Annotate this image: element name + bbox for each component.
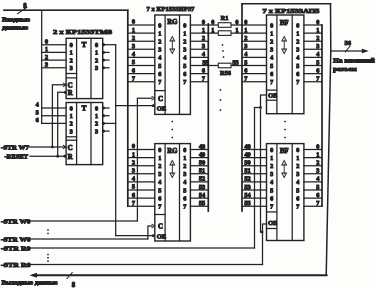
svg-text:1: 1 bbox=[70, 50, 73, 57]
svg-text:2: 2 bbox=[296, 39, 299, 46]
svg-text:4: 4 bbox=[36, 102, 40, 109]
svg-text:1: 1 bbox=[202, 27, 205, 34]
wire resistor row 5 wire 55 between rails bbox=[208, 59, 242, 66]
svg-text:RG: RG bbox=[167, 19, 178, 26]
svg-text:2: 2 bbox=[158, 39, 161, 46]
bus width tick 8 on input bus bbox=[18, 3, 28, 14]
svg-text:7: 7 bbox=[244, 76, 247, 83]
svg-text:5: 5 bbox=[296, 63, 299, 70]
svg-text:T: T bbox=[82, 41, 87, 49]
svg-text:3: 3 bbox=[183, 171, 186, 178]
svg-text:0: 0 bbox=[183, 147, 186, 154]
svg-text:5: 5 bbox=[36, 109, 39, 116]
svg-text:3: 3 bbox=[316, 168, 319, 175]
svg-text:7: 7 bbox=[158, 79, 161, 86]
bidirectional arrow symbol in lower BF bbox=[282, 161, 287, 178]
svg-text:55: 55 bbox=[199, 200, 205, 207]
svg-text:-RESET: -RESET bbox=[5, 154, 29, 161]
svg-text:R: R bbox=[68, 153, 74, 161]
ellipsis dots between STR W0 and W6 bbox=[47, 229, 49, 234]
svg-text:4: 4 bbox=[183, 55, 186, 62]
svg-text:55: 55 bbox=[232, 59, 238, 66]
svg-text:1: 1 bbox=[296, 30, 299, 37]
junction OE branch upper bbox=[152, 104, 155, 107]
svg-text:RG: RG bbox=[167, 148, 178, 155]
svg-text:2: 2 bbox=[132, 35, 135, 42]
svg-text:0: 0 bbox=[132, 143, 135, 150]
ellipsis dots resistors R3-R55 bbox=[220, 44, 225, 111]
svg-text:6: 6 bbox=[296, 195, 299, 202]
svg-text:5: 5 bbox=[270, 63, 273, 70]
junction RESET branch bbox=[56, 91, 66, 158]
svg-text:Выходные данные: Выходные данные bbox=[2, 279, 58, 286]
svg-text:2: 2 bbox=[158, 163, 161, 170]
svg-text:1: 1 bbox=[244, 27, 247, 34]
ellipsis dots more buffers between AP5 blocks bbox=[284, 121, 286, 139]
svg-text:5: 5 bbox=[296, 187, 299, 194]
svg-text:Входные: Входные bbox=[2, 17, 30, 24]
wire taps rail2 to lower buffer AP5 inputs 48-55 bbox=[242, 143, 267, 207]
svg-text:5: 5 bbox=[183, 63, 186, 70]
wire STR W6 riser to lower register C pin bbox=[148, 226, 152, 239]
svg-text:4: 4 bbox=[270, 179, 273, 186]
svg-text:6: 6 bbox=[158, 71, 161, 78]
wire stubs TM8 lower outputs bbox=[103, 108, 109, 131]
svg-text:7: 7 bbox=[183, 204, 186, 211]
wire resistor row 0 between rails bbox=[208, 19, 242, 26]
svg-text:48: 48 bbox=[199, 143, 205, 150]
svg-text:3: 3 bbox=[132, 168, 135, 175]
svg-text:49: 49 bbox=[244, 151, 250, 158]
svg-text:0: 0 bbox=[211, 19, 214, 26]
wire input bus vertical drop to TM8 inputs bbox=[41, 10, 43, 123]
pin OE of lower register bbox=[157, 234, 166, 241]
svg-text:3: 3 bbox=[158, 171, 161, 178]
svg-text:6: 6 bbox=[296, 71, 299, 78]
junction OE branch lower bbox=[152, 234, 155, 237]
svg-text:1: 1 bbox=[132, 27, 135, 34]
svg-text:данные: данные bbox=[2, 25, 28, 32]
svg-text:1: 1 bbox=[235, 27, 238, 34]
wire cable frame top edge bbox=[242, 3, 331, 5]
svg-text:1: 1 bbox=[316, 27, 319, 34]
svg-text:1: 1 bbox=[158, 30, 161, 37]
svg-text:4: 4 bbox=[158, 55, 161, 62]
svg-text:52: 52 bbox=[244, 176, 250, 183]
svg-text:-STR R0: -STR R0 bbox=[1, 245, 31, 252]
svg-text:0: 0 bbox=[95, 105, 98, 112]
svg-text:OE: OE bbox=[157, 106, 166, 113]
svg-text:7: 7 bbox=[296, 79, 299, 86]
pin C of upper TM8 with dynamic indicator bbox=[63, 82, 73, 90]
svg-text:1: 1 bbox=[296, 155, 299, 162]
svg-text:56: 56 bbox=[345, 40, 352, 47]
svg-text:2: 2 bbox=[244, 35, 247, 42]
svg-text:2: 2 bbox=[296, 163, 299, 170]
svg-text:7: 7 bbox=[183, 79, 186, 86]
svg-text:5: 5 bbox=[316, 184, 319, 191]
svg-text:-STR W0: -STR W0 bbox=[1, 218, 31, 225]
svg-text:0: 0 bbox=[95, 42, 98, 49]
svg-text:C: C bbox=[68, 144, 73, 152]
wire OE branch to lower register OE pin bbox=[116, 235, 155, 237]
pin C of lower TM8 with dynamic indicator bbox=[63, 144, 73, 152]
svg-text:3: 3 bbox=[183, 47, 186, 54]
junction STR W7 branch bbox=[51, 146, 54, 149]
svg-text:53: 53 bbox=[244, 184, 250, 191]
svg-text:BF: BF bbox=[280, 20, 289, 27]
svg-text:1: 1 bbox=[183, 155, 186, 162]
svg-text:53: 53 bbox=[199, 184, 205, 191]
junction STR R0 at OE tie bbox=[259, 106, 262, 109]
svg-text:5: 5 bbox=[158, 187, 161, 194]
svg-text:0: 0 bbox=[316, 143, 319, 150]
pin OE of upper buffer bbox=[268, 93, 277, 100]
svg-text:2: 2 bbox=[316, 160, 319, 167]
svg-text:C: C bbox=[158, 95, 163, 103]
label 7 x KR1533IR37 bbox=[147, 6, 196, 13]
wire to external connector with arrow bbox=[331, 49, 369, 54]
buffer DD4 upper KR1533AP5 body bbox=[267, 15, 304, 114]
svg-text:7 х КР1533АП5: 7 х КР1533АП5 bbox=[263, 8, 321, 15]
svg-text:7: 7 bbox=[202, 76, 205, 83]
svg-text:0: 0 bbox=[270, 147, 273, 154]
svg-text:3: 3 bbox=[296, 47, 299, 54]
svg-text:1: 1 bbox=[95, 113, 98, 120]
svg-text:7: 7 bbox=[270, 204, 273, 211]
ellipsis dots more registers between IR37 blocks bbox=[171, 121, 173, 139]
svg-text:R56: R56 bbox=[220, 70, 232, 77]
svg-text:На внешний: На внешний bbox=[333, 58, 375, 65]
resistor R2 bbox=[218, 31, 231, 36]
svg-text:-STR R6: -STR R6 bbox=[1, 262, 31, 269]
svg-text:2: 2 bbox=[70, 57, 73, 64]
signal -STR R0 wire to buffers OE bbox=[1, 245, 255, 252]
wire OE tie vertical between buffer groups bbox=[261, 108, 263, 233]
node output rail 56-wire vertical bbox=[321, 25, 323, 206]
svg-text:1: 1 bbox=[95, 50, 98, 57]
svg-text:1: 1 bbox=[270, 30, 273, 37]
junction STR R6 at OE tie bbox=[261, 231, 264, 234]
svg-text:7: 7 bbox=[132, 200, 135, 207]
wire cable frame right vertical bbox=[326, 4, 331, 276]
resistor R56 bbox=[218, 63, 232, 77]
svg-text:R1: R1 bbox=[221, 15, 229, 22]
svg-text:6: 6 bbox=[270, 71, 273, 78]
wire bus taps to TM8 lower inputs with bit numbers 4-6 bbox=[36, 102, 66, 124]
node output-data bus (8-bit) bottom wire with left arrow bbox=[30, 273, 327, 278]
svg-text:1: 1 bbox=[183, 30, 186, 37]
svg-text:-STR W7: -STR W7 bbox=[1, 144, 30, 151]
svg-text:3: 3 bbox=[296, 171, 299, 178]
wire bus taps to upper register IR37 inputs bits 0-7 bbox=[128, 19, 155, 83]
svg-text:3: 3 bbox=[202, 43, 205, 50]
junction dots on TM8 upper outputs bbox=[102, 43, 105, 69]
svg-text:3: 3 bbox=[270, 171, 273, 178]
svg-text:5: 5 bbox=[132, 184, 135, 191]
pin OE of lower buffer bbox=[268, 220, 277, 227]
svg-text:OE: OE bbox=[268, 220, 277, 227]
svg-text:-STR W6: -STR W6 bbox=[1, 236, 31, 243]
signal -STR W6 wire to lower register C bbox=[1, 236, 148, 243]
svg-text:8: 8 bbox=[72, 282, 76, 289]
svg-text:6: 6 bbox=[183, 195, 186, 202]
signal -RESET wire to R pins of TM8 bbox=[5, 154, 67, 161]
svg-text:5: 5 bbox=[270, 187, 273, 194]
svg-text:2: 2 bbox=[95, 121, 98, 128]
buffer DD5 lower KR1533AP5 body bbox=[267, 144, 304, 241]
wire TM8 upper output Q0 to OE net vertical bbox=[103, 44, 116, 46]
label Na vneshniy razyem bbox=[333, 58, 375, 73]
wire branch STR W7 up to upper TM8 C pin bbox=[52, 85, 66, 147]
svg-text:3: 3 bbox=[45, 62, 48, 69]
svg-text:OE: OE bbox=[157, 234, 166, 241]
wire input bus vertical rail to register inputs bbox=[127, 10, 129, 206]
node input-data bus (8-bit) top horizontal wire bbox=[4, 9, 128, 11]
signal -STR R6 wire to lower buffer OE bbox=[1, 262, 263, 269]
svg-text:0: 0 bbox=[235, 19, 238, 26]
wire upper buffer outputs to output rail with bit numbers bbox=[304, 19, 322, 83]
svg-text:3: 3 bbox=[270, 47, 273, 54]
wire TM8 lower output Q2 to OE net vertical bbox=[103, 122, 116, 124]
svg-text:51: 51 bbox=[244, 168, 250, 175]
svg-text:2 х КР1533ТМ8: 2 х КР1533ТМ8 bbox=[53, 29, 113, 36]
svg-text:7 х КР1533ИР37: 7 х КР1533ИР37 bbox=[147, 6, 196, 13]
svg-text:7: 7 bbox=[316, 76, 319, 83]
svg-text:6: 6 bbox=[316, 192, 319, 199]
bidirectional arrow symbol in upper BF bbox=[282, 37, 287, 54]
label 7 x KR1533AP5 bbox=[263, 8, 321, 15]
svg-text:48: 48 bbox=[244, 143, 250, 150]
svg-text:6: 6 bbox=[36, 117, 39, 124]
node bus rail 2 cable frame left vertical bbox=[241, 4, 243, 211]
svg-text:3: 3 bbox=[70, 65, 73, 72]
svg-text:50: 50 bbox=[199, 160, 205, 167]
svg-text:4: 4 bbox=[183, 179, 186, 186]
register DD3 lower KR1533IR37 body bbox=[155, 144, 191, 241]
svg-text:0: 0 bbox=[296, 147, 299, 154]
wire resistor row 1 between rails bbox=[208, 27, 242, 34]
svg-text:BF: BF bbox=[280, 148, 289, 155]
svg-text:1: 1 bbox=[45, 46, 48, 53]
wire branch RESET up to upper TM8 R pin bbox=[58, 92, 66, 156]
pin R of upper TM8 bbox=[68, 89, 74, 97]
svg-text:0: 0 bbox=[270, 22, 273, 29]
wire bus taps to lower register IR37 inputs bits 0-7 bbox=[128, 143, 155, 207]
svg-text:3: 3 bbox=[70, 128, 73, 135]
svg-text:5: 5 bbox=[316, 59, 319, 66]
svg-text:49: 49 bbox=[199, 151, 205, 158]
wire STR R0 riser to upper buffer OE bbox=[255, 108, 261, 249]
svg-text:0: 0 bbox=[158, 22, 161, 29]
svg-text:6: 6 bbox=[183, 71, 186, 78]
flip-flop DD1 lower section KR1533TM8 body bbox=[66, 103, 103, 165]
svg-text:55: 55 bbox=[244, 200, 250, 207]
svg-text:4: 4 bbox=[270, 55, 273, 62]
svg-text:5: 5 bbox=[183, 187, 186, 194]
svg-text:3: 3 bbox=[316, 43, 319, 50]
svg-text:OE: OE bbox=[268, 93, 277, 100]
svg-text:0: 0 bbox=[70, 105, 73, 112]
wire lower register outputs to bus rail with wire numbers 48-55 bbox=[190, 143, 208, 207]
svg-text:6: 6 bbox=[316, 67, 319, 74]
svg-text:7: 7 bbox=[158, 204, 161, 211]
svg-text:51: 51 bbox=[199, 168, 205, 175]
svg-text:3: 3 bbox=[95, 65, 98, 72]
svg-text:C: C bbox=[158, 223, 163, 231]
svg-text:2: 2 bbox=[132, 159, 135, 166]
svg-text:1: 1 bbox=[70, 113, 73, 120]
svg-text:2: 2 bbox=[316, 35, 319, 42]
signal -STR W0 wire to upper register C bbox=[1, 218, 137, 225]
svg-text:1: 1 bbox=[270, 155, 273, 162]
pin R of lower TM8 bbox=[68, 153, 74, 161]
label 2 x KR1533TM8 bbox=[53, 29, 113, 36]
svg-text:0: 0 bbox=[244, 19, 247, 26]
pin OE of upper register bbox=[157, 106, 166, 113]
label Входные данные bbox=[2, 17, 30, 32]
svg-text:6: 6 bbox=[270, 195, 273, 202]
svg-text:T: T bbox=[82, 104, 87, 112]
svg-text:7: 7 bbox=[316, 200, 319, 207]
svg-text:0: 0 bbox=[45, 38, 48, 45]
svg-text:7: 7 bbox=[132, 75, 135, 82]
svg-text:2: 2 bbox=[70, 121, 73, 128]
svg-text:6: 6 bbox=[132, 192, 135, 199]
svg-text:7: 7 bbox=[296, 204, 299, 211]
svg-text:2: 2 bbox=[270, 163, 273, 170]
wire stubs TM8 upper outputs Q1-Q3 bbox=[103, 52, 109, 67]
svg-text:разъем: разъем bbox=[333, 66, 357, 73]
svg-text:4: 4 bbox=[296, 55, 299, 62]
wire taps rail2 to upper buffer AP5 inputs 0-7 bbox=[242, 19, 267, 83]
svg-text:54: 54 bbox=[244, 192, 251, 199]
svg-text:2: 2 bbox=[45, 54, 48, 61]
svg-text:2: 2 bbox=[183, 39, 186, 46]
bidirectional arrow symbol in upper RG bbox=[170, 37, 175, 54]
svg-text:2: 2 bbox=[202, 35, 205, 42]
svg-text:1: 1 bbox=[158, 155, 161, 162]
svg-text:7: 7 bbox=[270, 79, 273, 86]
bus width tick 8 on output bus bbox=[67, 272, 76, 289]
svg-text:0: 0 bbox=[316, 19, 319, 26]
signal -STR W7 wire to C pins of TM8 bbox=[1, 144, 66, 151]
bus width tick 56 on connector wire bbox=[345, 40, 352, 52]
wire OE net vertical from TM8 to registers OE pins bbox=[115, 45, 117, 236]
pin C of lower register with dynamic indicator bbox=[152, 223, 163, 231]
wire OE branch to upper register OE pin bbox=[116, 105, 155, 107]
svg-text:0: 0 bbox=[202, 19, 205, 26]
svg-text:6: 6 bbox=[244, 67, 247, 74]
wire STR W0 riser to upper register C pin bbox=[137, 98, 152, 221]
svg-text:3: 3 bbox=[132, 43, 135, 50]
svg-text:R: R bbox=[68, 89, 74, 97]
svg-text:6: 6 bbox=[132, 67, 135, 74]
svg-text:54: 54 bbox=[199, 192, 206, 199]
svg-text:4: 4 bbox=[296, 179, 299, 186]
svg-text:0: 0 bbox=[158, 147, 161, 154]
flip-flop DD1 upper section 2xKR1533TM8 body bbox=[66, 38, 103, 98]
wire lower buffer outputs to output rail with bit numbers bbox=[304, 143, 322, 207]
svg-text:2: 2 bbox=[270, 39, 273, 46]
svg-text:3: 3 bbox=[158, 47, 161, 54]
wire bus taps to TM8 upper inputs with bit numbers 0-3 bbox=[42, 38, 66, 68]
svg-text:5: 5 bbox=[158, 63, 161, 70]
register DD2 upper KR1533IR37 body bbox=[155, 15, 191, 114]
svg-text:50: 50 bbox=[244, 160, 250, 167]
svg-text:5: 5 bbox=[244, 59, 247, 66]
svg-text:0: 0 bbox=[70, 42, 73, 49]
svg-text:8: 8 bbox=[23, 3, 27, 10]
svg-text:1: 1 bbox=[211, 27, 214, 34]
wire upper buffer OE stub bbox=[261, 95, 267, 108]
label Выходные данные bbox=[2, 279, 58, 286]
svg-text:1: 1 bbox=[132, 151, 135, 158]
svg-text:0: 0 bbox=[132, 19, 135, 26]
svg-text:0: 0 bbox=[183, 22, 186, 29]
svg-text:6: 6 bbox=[202, 67, 205, 74]
svg-text:4: 4 bbox=[158, 179, 161, 186]
svg-text:52: 52 bbox=[199, 176, 205, 183]
bidirectional arrow symbol in lower RG bbox=[170, 161, 175, 178]
svg-text:0: 0 bbox=[296, 22, 299, 29]
ellipsis dots between STR R0 and R6 bbox=[47, 254, 49, 262]
pin C of upper register with dynamic indicator bbox=[152, 95, 163, 103]
svg-text:2: 2 bbox=[183, 163, 186, 170]
node bus rail 1 vertical bbox=[207, 24, 209, 211]
svg-text:2: 2 bbox=[95, 57, 98, 64]
resistor R1 bbox=[218, 15, 231, 27]
svg-text:6: 6 bbox=[158, 195, 161, 202]
junction dots on TM8 lower outputs bbox=[102, 106, 105, 132]
svg-text:1: 1 bbox=[316, 151, 319, 158]
svg-text:3: 3 bbox=[244, 43, 247, 50]
wire STR R6 riser to lower buffer OE bbox=[263, 224, 267, 265]
svg-text:5: 5 bbox=[132, 59, 135, 66]
svg-text:3: 3 bbox=[95, 128, 98, 135]
wire upper register outputs to bus rail with wire numbers bbox=[190, 19, 208, 83]
